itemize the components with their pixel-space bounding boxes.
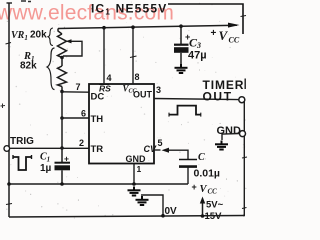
ground at GND terminal — [215, 141, 228, 150]
ground on 0V link — [136, 196, 149, 205]
svg-text:IC1 NE555V: IC1 NE555V — [91, 2, 168, 17]
arrowhead +Vcc — [228, 23, 240, 28]
svg-text:C1: C1 — [40, 152, 50, 164]
stray mark left edge — [1, 104, 6, 109]
svg-text:V: V — [219, 28, 229, 43]
node pin6 junction — [60, 116, 64, 120]
svg-text:CV: CV — [144, 144, 157, 154]
node trigger junction — [60, 146, 64, 150]
wire: left vertical rail — [8, 3, 10, 217]
svg-text:47µ: 47µ — [188, 50, 207, 62]
brace VR1 — [48, 28, 53, 46]
svg-text:VR1: VR1 — [11, 30, 28, 42]
svg-text:0V: 0V — [165, 206, 178, 217]
svg-text:TRIG: TRIG — [10, 136, 34, 147]
svg-text:5: 5 — [158, 138, 163, 148]
potentiometer VR1 — [58, 34, 67, 58]
tick top of left rail — [7, 2, 13, 4]
svg-text:GND: GND — [126, 154, 147, 164]
op IC U1 555 box — [89, 84, 154, 164]
svg-text:+: + — [211, 28, 217, 39]
resistor R1 82k — [58, 66, 67, 87]
capacitor C3 47u electrolytic — [180, 26, 182, 44]
wire: +Vcc top rail — [58, 25, 237, 28]
wire pin 6 — [62, 117, 89, 119]
svg-text:6: 6 — [81, 109, 86, 119]
wire right edge: OUT terminal down to 0V rail — [243, 102, 244, 216]
wire to pin7 node — [61, 87, 63, 92]
wire pin 1 GND to bus — [133, 164, 135, 184]
svg-text:4: 4 — [107, 73, 112, 83]
svg-text:8: 8 — [135, 72, 140, 82]
svg-text:V: V — [200, 184, 208, 195]
node pin7 junction — [60, 90, 64, 94]
wire pin 3 OUT to terminal — [154, 99, 239, 100]
svg-text:82k: 82k — [20, 61, 37, 72]
wire pin 4 to rail — [103, 28, 105, 84]
svg-text:CC: CC — [208, 188, 218, 196]
svg-text:CC: CC — [229, 36, 240, 45]
label +Vcc (top right) — [211, 28, 240, 45]
supply annotation arrow — [202, 200, 204, 216]
tick break on left rail — [6, 43, 12, 45]
svg-text:3: 3 — [156, 85, 161, 95]
svg-text:GND: GND — [217, 125, 242, 137]
svg-text:C3: C3 — [189, 36, 201, 51]
wire trigger line to pin 2 — [10, 147, 89, 149]
svg-text:TH: TH — [91, 114, 104, 125]
node C3 tap on rail — [179, 24, 183, 28]
VR1 wiper — [63, 41, 82, 56]
wire pin 7 — [62, 91, 89, 93]
output pulse waveform symbol — [169, 106, 201, 115]
label +Vcc (supply) — [192, 182, 218, 196]
svg-text:0.01µ: 0.01µ — [194, 168, 221, 180]
wire bottom 0V rail — [9, 216, 244, 218]
svg-text:OUT: OUT — [133, 90, 153, 100]
svg-text:2: 2 — [79, 138, 84, 148]
svg-text:20k: 20k — [30, 30, 47, 41]
svg-text:7: 7 — [76, 82, 81, 92]
svg-text:1µ: 1µ — [40, 163, 52, 174]
terminal TIMER OUT — [239, 97, 245, 103]
wire ground bus — [9, 183, 188, 185]
wire column to pin6 — [61, 92, 63, 119]
ground below pin1 node — [128, 187, 141, 196]
wire 0V rail to earth ground — [141, 195, 163, 216]
svg-text:+: + — [192, 182, 197, 192]
capacitor C 0.01u — [179, 159, 197, 161]
wire — [61, 58, 63, 67]
wire GND terminal to earth — [222, 134, 240, 140]
input pulse waveform symbol — [13, 157, 32, 170]
capacitor C1 1u — [61, 148, 63, 163]
wire: rail corner drop to VR1 — [58, 29, 62, 35]
terminal GND — [240, 131, 246, 137]
svg-text:TR: TR — [91, 144, 104, 155]
frame tick — [241, 16, 247, 17]
terminal TRIG — [4, 146, 10, 152]
node: VR1/R1 junction — [60, 56, 64, 60]
svg-text:5V~: 5V~ — [206, 200, 224, 211]
wire pin 8 to rail — [132, 27, 134, 84]
svg-text:+: + — [64, 154, 69, 164]
brace R1 — [47, 48, 55, 90]
stray marks top edge — [21, 0, 31, 3]
svg-text:15V: 15V — [205, 211, 223, 222]
wire column to trigger line — [61, 118, 63, 148]
svg-text:1: 1 — [137, 164, 142, 174]
ground below C3 — [175, 64, 188, 73]
cropped frame line top-right — [168, 4, 243, 34]
svg-text:C: C — [198, 152, 205, 163]
svg-text:OUT: OUT — [203, 90, 233, 104]
